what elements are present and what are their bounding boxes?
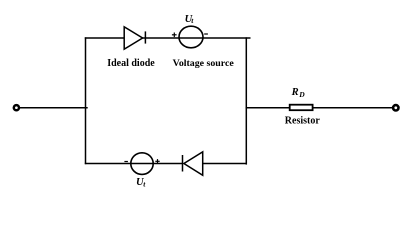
svg-text:Voltage source: Voltage source [173, 58, 235, 69]
wire: bottom branch left segment [85, 163, 183, 165]
svg-text:R: R [291, 87, 299, 98]
svg-text:t: t [191, 16, 194, 25]
diode D2 (bottom, pointing left) [183, 152, 203, 175]
svg-text:D: D [298, 90, 305, 99]
label: Resistor [285, 115, 321, 126]
node: right terminal [393, 105, 398, 110]
polarity - of voltage source U2 [124, 161, 128, 163]
svg-text:Resistor: Resistor [285, 115, 321, 126]
wire: top branch right segment [142, 37, 250, 39]
label: Voltage source [173, 58, 235, 69]
voltage source U1 (top) [179, 26, 203, 48]
svg-text:t: t [143, 180, 146, 189]
wire: top branch left segment [85, 37, 124, 39]
resistor RD [290, 105, 313, 111]
node: left terminal [14, 105, 19, 110]
polarity + of voltage source U2 [155, 159, 159, 163]
diode D1 (ideal diode, pointing right) [124, 27, 145, 49]
value label U_t (bottom) [136, 177, 146, 189]
value label R_D [291, 87, 306, 99]
voltage source U2 (bottom) [131, 153, 153, 175]
wire: right junction to resistor [246, 107, 290, 109]
polarity - of voltage source U1 [204, 33, 208, 35]
value label U_t (top) [185, 14, 195, 25]
label: Ideal diode [107, 58, 155, 69]
wire: bottom branch right segment [203, 163, 247, 165]
wire: left terminal to left junction [20, 107, 88, 109]
svg-text:Ideal diode: Ideal diode [107, 58, 155, 69]
wire: right junction vertical [245, 37, 247, 164]
wire: resistor to right terminal [313, 107, 392, 109]
polarity + of voltage source U1 [172, 33, 177, 38]
wire: left junction vertical [85, 37, 87, 164]
